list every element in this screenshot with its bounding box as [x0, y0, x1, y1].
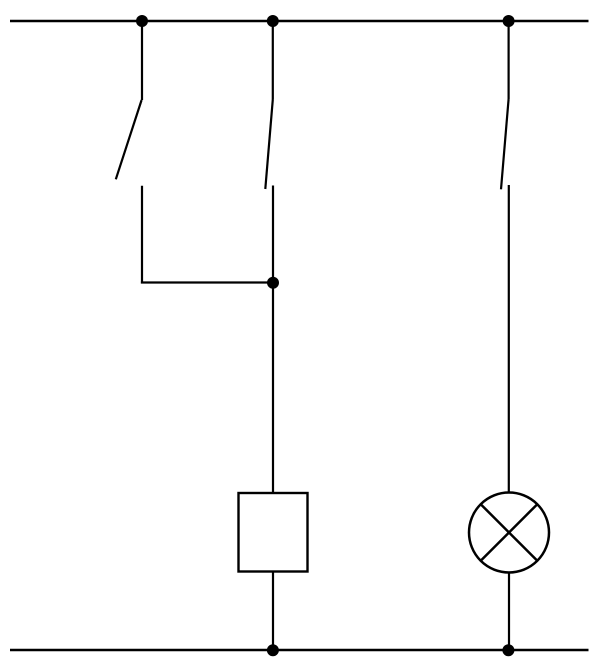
wire: branch 2 lower vertical segment from coil to bottom rail [272, 572, 274, 651]
wire: bottom return rail L2 [10, 649, 589, 651]
wire: branch 1 horizontal link to branch 2 [141, 281, 273, 283]
node: junction dot bottom branch 3 [502, 644, 514, 656]
wire: branch 1 upper vertical segment [141, 21, 143, 100]
node: junction dot top branch 1 [136, 15, 148, 27]
wire: branch 3 upper vertical segment [508, 21, 510, 99]
lamp H1 circle [469, 493, 549, 573]
switch S1 normally-open contact blade [116, 100, 142, 179]
node: junction dot top branch 3 [503, 15, 515, 27]
wire: top supply rail L1 [10, 20, 589, 22]
wire: branch 2 middle vertical segment down to coil [272, 186, 274, 494]
node: junction dot top branch 2 [267, 15, 279, 27]
node: junction dot where link meets branch 2 [267, 277, 279, 289]
switch S3 normally-open contact blade [501, 99, 509, 189]
lamp H1 cross stroke NW-SE [481, 504, 538, 561]
node: junction dot bottom branch 2 [267, 644, 279, 656]
switch S2 normally-open contact blade [265, 100, 273, 190]
lamp H1 cross stroke NE-SW [481, 504, 538, 561]
wire: branch 3 middle vertical segment down to lamp [508, 185, 510, 493]
wire: branch 2 upper vertical segment [272, 21, 274, 100]
wire: branch 1 lower vertical segment [141, 186, 143, 284]
wire: branch 3 lower vertical segment from lamp to bottom rail [508, 573, 510, 651]
coil K1 (relay coil rectangle) [239, 493, 308, 572]
